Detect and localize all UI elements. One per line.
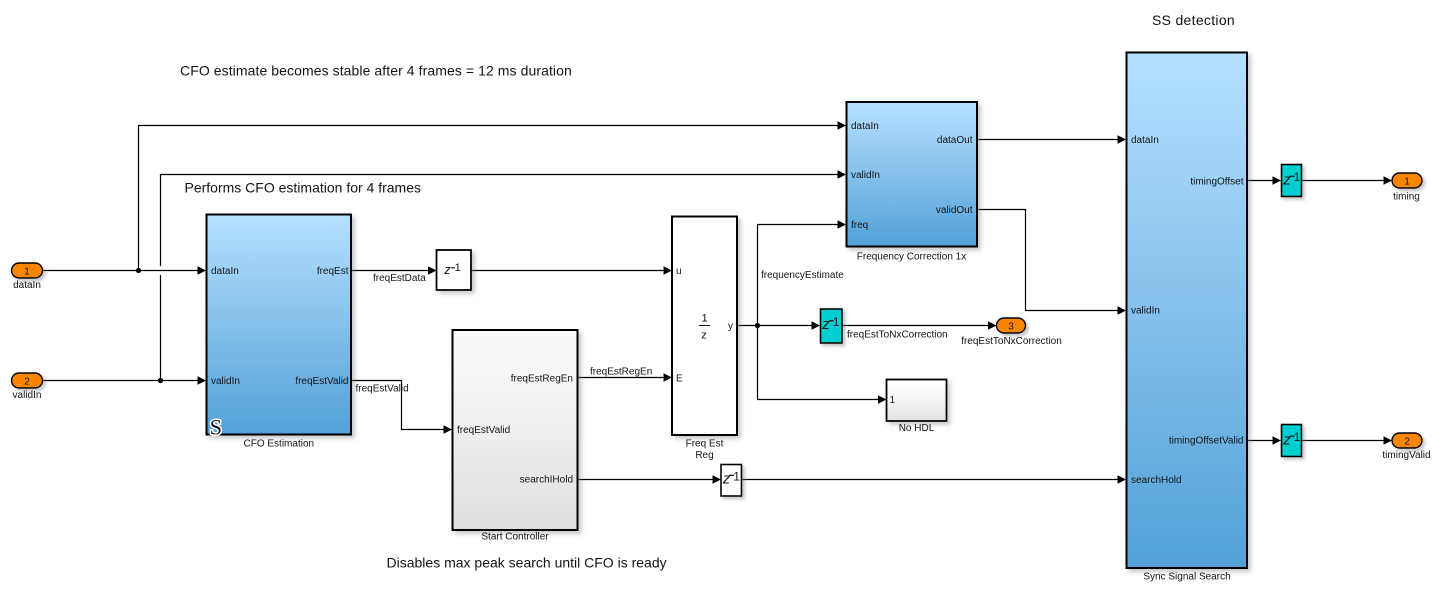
svg-text:freqEstRegEn: freqEstRegEn: [590, 367, 652, 378]
svg-text:freqEstData: freqEstData: [373, 273, 426, 284]
svg-text:dataIn: dataIn: [211, 266, 239, 277]
arrowhead into CFO validIn: [198, 376, 207, 384]
arrowhead into No HDL: [878, 395, 887, 403]
svg-text:1: 1: [833, 315, 840, 329]
block No HDL: [887, 380, 947, 435]
wire Delay5 to outport 1 timing: [1302, 180, 1385, 182]
delay D4 z^-1: [721, 465, 742, 497]
delay D6 z^-1 (cyan): [1282, 425, 1302, 457]
block Sync Signal Search U5: [1127, 53, 1248, 583]
svg-text:S: S: [210, 415, 222, 440]
block CFO Estimation U1: [207, 215, 352, 450]
svg-text:z: z: [443, 262, 451, 277]
svg-text:z: z: [1282, 431, 1291, 448]
svg-text:dataIn: dataIn: [13, 280, 41, 291]
svg-text:dataIn: dataIn: [1131, 135, 1159, 146]
svg-text:validIn: validIn: [851, 170, 880, 181]
wire freqEstRegEn: Start Controller to Freq Est Reg E: [578, 377, 664, 379]
svg-text:Start Controller: Start Controller: [481, 532, 549, 543]
svg-text:validIn: validIn: [13, 390, 42, 401]
svg-text:3: 3: [1008, 322, 1014, 333]
arrowhead into Frequency Correction dataIn: [838, 121, 847, 129]
svg-text:freq: freq: [851, 220, 868, 231]
svg-text:z: z: [701, 330, 707, 342]
svg-text:validIn: validIn: [1131, 306, 1160, 317]
svg-text:searchIHold: searchIHold: [520, 474, 573, 485]
inport 2 validIn: [12, 373, 43, 401]
svg-text:dataIn: dataIn: [851, 121, 879, 132]
arrowhead into Delay3: [812, 321, 821, 329]
svg-text:1: 1: [1404, 177, 1410, 188]
svg-text:freqEstToNxCorrection: freqEstToNxCorrection: [961, 336, 1062, 347]
inport 1 dataIn: [12, 263, 43, 291]
svg-text:Performs CFO estimation for 4: Performs CFO estimation for 4 frames: [185, 180, 422, 196]
svg-text:freqEstValid: freqEstValid: [356, 384, 409, 395]
svg-text:z: z: [1282, 171, 1291, 188]
wire y out: Freq Est Reg y to Delay3: [737, 325, 812, 327]
arrowhead into Sync dataIn: [1118, 135, 1127, 143]
svg-text:u: u: [676, 266, 682, 277]
arrowhead into Delay4: [713, 475, 722, 483]
svg-text:timing: timing: [1393, 192, 1420, 203]
svg-text:timingValid: timingValid: [1382, 450, 1430, 461]
svg-text:1: 1: [24, 267, 30, 278]
svg-text:CFO Estimation: CFO Estimation: [244, 439, 315, 450]
wire searchIHold: Start Controller to Delay4: [578, 479, 713, 481]
wire timingOffsetValid: Sync Signal Search to Delay6: [1248, 440, 1274, 442]
arrowhead into CFO dataIn: [198, 266, 207, 274]
svg-text:E: E: [676, 374, 683, 385]
svg-text:1: 1: [701, 313, 707, 325]
svg-text:1: 1: [1294, 430, 1301, 444]
svg-text:frequencyEstimate: frequencyEstimate: [761, 270, 844, 281]
outport 3 freqEstToNxCorrection: [961, 318, 1062, 347]
annotation: CFO estimate note: [180, 63, 572, 79]
arrowhead into Delay6: [1273, 436, 1282, 444]
svg-text:SS detection: SS detection: [1152, 12, 1235, 28]
wire dataIn: inport 1 to CFO Estimation dataIn: [43, 270, 199, 272]
wire validIn branch up to Frequency Correction validIn: [161, 175, 839, 381]
wire freqEstData: CFO freqEst to Delay1: [352, 270, 429, 272]
wire Delay4 to Sync Signal Search searchHold: [742, 479, 1118, 481]
annotation: Disables max peak search: [387, 555, 667, 571]
wire Delay1 to Freq Est Reg u: [472, 270, 665, 272]
arrowhead into outport 3: [988, 321, 997, 329]
svg-text:2: 2: [1404, 437, 1410, 448]
svg-text:freqEst: freqEst: [317, 266, 349, 277]
svg-text:1: 1: [455, 262, 461, 274]
block Freq Est Reg U3: [672, 217, 737, 462]
wire dataOut: Frequency Correction to Sync Signal Search dataIn: [977, 139, 1118, 141]
svg-text:2: 2: [24, 377, 30, 388]
delay D5 z^-1 (cyan): [1282, 165, 1302, 197]
wire freqEstValid: CFO freqEstValid to Start Controller: [352, 381, 445, 430]
svg-text:1: 1: [733, 469, 740, 483]
wire timingOffset: Sync Signal Search to Delay5: [1248, 180, 1274, 182]
svg-text:freqEstToNxCorrection: freqEstToNxCorrection: [847, 330, 948, 341]
arrowhead into outport 2: [1384, 436, 1393, 444]
svg-text:timingOffsetValid: timingOffsetValid: [1169, 436, 1244, 447]
outport 1 timing: [1392, 173, 1422, 203]
annotation: Performs CFO estimation: [185, 180, 422, 196]
svg-text:freqEstValid: freqEstValid: [295, 376, 348, 387]
block Frequency Correction 1x U4: [847, 102, 978, 263]
wire frequencyEstimate branch up to Frequency Correction freq: [758, 225, 839, 326]
annotation: SS detection: [1152, 12, 1235, 28]
wire Delay6 to outport 2 timingValid: [1302, 440, 1385, 442]
junction on dataIn wire: [136, 268, 141, 273]
arrowhead into Delay1: [428, 266, 437, 274]
svg-text:z: z: [821, 316, 830, 333]
svg-text:Freq Est: Freq Est: [686, 439, 724, 450]
svg-text:Sync Signal Search: Sync Signal Search: [1143, 572, 1230, 583]
outport 2 timingValid: [1382, 433, 1430, 461]
arrowhead into Freq Est Reg u: [664, 266, 673, 274]
block Start Controller U2: [453, 330, 578, 543]
svg-text:Disables max peak search until: Disables max peak search until CFO is re…: [387, 555, 667, 571]
junction on frequencyEstimate wire: [755, 323, 760, 328]
svg-text:1: 1: [1294, 170, 1301, 184]
delay D3 z^-1 (cyan): [821, 309, 843, 343]
junction on validIn wire: [158, 378, 163, 383]
arrowhead into outport 1: [1384, 176, 1393, 184]
svg-text:Frequency Correction 1x: Frequency Correction 1x: [857, 252, 967, 263]
svg-text:searchHold: searchHold: [1131, 475, 1182, 486]
arrowhead into Frequency Correction freq: [838, 220, 847, 228]
delay D1 z^-1: [437, 250, 472, 290]
wire freqEstToNxCorrection: Delay3 to outport 3: [842, 325, 989, 327]
svg-text:No HDL: No HDL: [899, 423, 935, 434]
wire validIn: inport 2 to CFO Estimation validIn: [43, 380, 199, 382]
svg-text:freqEstRegEn: freqEstRegEn: [511, 374, 573, 385]
arrowhead into Freq Est Reg E: [664, 373, 673, 381]
arrowhead into Delay5: [1273, 176, 1282, 184]
svg-text:CFO estimate becomes stable af: CFO estimate becomes stable after 4 fram…: [180, 63, 572, 79]
svg-text:y: y: [728, 321, 733, 332]
svg-text:validIn: validIn: [211, 376, 240, 387]
arrowhead into Frequency Correction validIn: [838, 170, 847, 178]
arrowhead into Start Controller freqEstValid: [444, 425, 453, 433]
svg-text:timingOffset: timingOffset: [1190, 177, 1243, 188]
arrowhead into Sync searchHold: [1118, 475, 1127, 483]
wire dataIn branch up to Frequency Correction dataIn: [139, 126, 839, 271]
svg-text:z: z: [722, 471, 731, 488]
svg-text:freqEstValid: freqEstValid: [457, 425, 510, 436]
svg-text:validOut: validOut: [936, 205, 973, 216]
svg-text:1: 1: [890, 395, 896, 406]
svg-text:dataOut: dataOut: [937, 135, 973, 146]
svg-text:Reg: Reg: [695, 450, 713, 461]
wire validOut: Frequency Correction to Sync Signal Search validIn: [977, 210, 1118, 311]
wire branch down to No HDL: [758, 326, 879, 400]
arrowhead into Sync validIn: [1118, 306, 1127, 314]
